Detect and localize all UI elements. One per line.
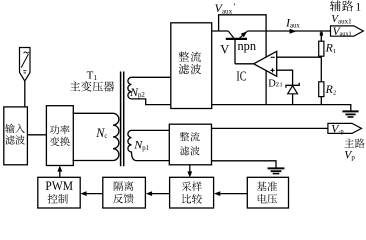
block: power converter 功率变换 (46, 106, 73, 166)
wire: main rail to V-p flag (212, 127, 328, 129)
ground (main) (268, 168, 285, 173)
block: aux rectifier/filter 整流滤波 (top) (171, 23, 212, 109)
transformer T1 labels (87, 70, 98, 83)
wire: AC input to input filter (24, 81, 26, 107)
winding Np1 (main secondary) (128, 130, 169, 160)
svg-text:1: 1 (355, 1, 361, 13)
block: main rectifier/filter 整流滤波 (bottom) (169, 124, 211, 165)
wire+arrow: PWM control to power converter (59, 171, 61, 177)
svg-text:PWM: PWM (45, 179, 73, 193)
svg-text:IC: IC (236, 70, 246, 85)
output flag Vaux1 (331, 26, 364, 36)
winding Nc (primary control winding) (73, 113, 119, 160)
wire: R1 to R2 (320, 56, 322, 82)
zener diode DZ1 (286, 83, 299, 105)
block: isolated feedback 隔离反馈 (103, 177, 146, 208)
wire: op-amp inverting input to R1/R2 divider (277, 56, 322, 58)
AC input connector flag (20, 48, 31, 82)
wire: aux return rail (212, 105, 351, 111)
wire+arrow: sampling comparator to isolated feedback (152, 193, 170, 195)
svg-text:V: V (220, 43, 229, 57)
wire: R2 to aux return rail (320, 97, 322, 105)
wire+arrow: main rectifier to sampling comparator (189, 165, 191, 172)
wire: op-amp output to transistor base (235, 63, 254, 65)
op-amp IC (254, 51, 277, 76)
winding Np2 (aux secondary) (128, 77, 171, 104)
block: input filter 输入滤波 (4, 107, 28, 165)
block: sampling comparator 采样比较 (170, 177, 214, 208)
wire: op-amp non-inverting input to zener (277, 70, 293, 85)
wire+arrow: voltage reference to sampling comparator (220, 193, 247, 195)
wire+arrow: isolated feedback to PWM controller (87, 193, 103, 195)
label 辅路1 (330, 1, 353, 12)
resistor R2 (319, 82, 324, 97)
output flag V-p (328, 123, 362, 133)
transistor V (npn series pass) (226, 31, 248, 64)
svg-text:npn: npn (238, 38, 257, 53)
wire: main return to ground (212, 161, 277, 168)
block: PWM controller PWM控制 (38, 177, 80, 208)
wire: op-amp V- to aux return rail (265, 71, 267, 105)
wire: rectifier output to Vaux' rail and op-amp V+ supply (212, 15, 266, 57)
junction: rail to R1 divider (320, 32, 323, 35)
wire: rail down to R1 (320, 31, 322, 41)
ground (aux) (342, 111, 358, 117)
resistor R1 (319, 41, 324, 56)
wire: emitter output rail to Vaux1 flag (247, 30, 330, 32)
wire: input filter to power converter (27, 134, 46, 136)
transformer core (121, 72, 124, 167)
current arrow Iaux (290, 29, 297, 34)
block: voltage reference 基准电压 (247, 177, 288, 208)
label 主路 (344, 139, 364, 149)
